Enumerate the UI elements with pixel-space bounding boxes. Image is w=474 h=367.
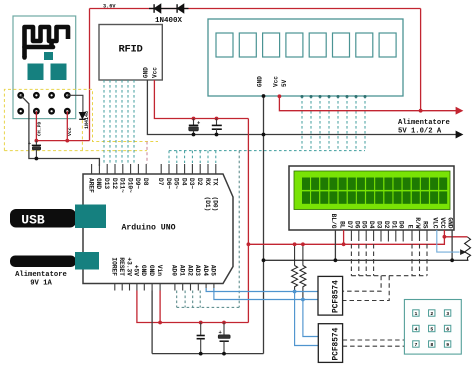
svg-text:D10~: D10~ — [126, 178, 133, 193]
svg-text:AD0: AD0 — [171, 265, 178, 276]
svg-text:Vin: Vin — [156, 265, 163, 276]
svg-text:AD1: AD1 — [179, 265, 186, 276]
capacitor C1 electrolytic — [35, 141, 37, 145]
svg-text:D7: D7 — [346, 221, 353, 229]
svg-text:RX: RX — [204, 178, 211, 186]
black dashed LCD control wires — [350, 237, 352, 276]
ESP8266 small chip — [44, 52, 53, 60]
svg-text:9: 9 — [446, 342, 449, 348]
resistor R1 pullup — [294, 244, 296, 265]
teal dashed bus horizontal — [169, 150, 365, 152]
svg-text:9V 1A: 9V 1A — [30, 280, 52, 288]
svg-text:GND: GND — [143, 67, 150, 78]
svg-text:Arduino UNO: Arduino UNO — [121, 223, 175, 233]
wire red to contrast pot — [444, 236, 467, 238]
teal dashed RFID data wires — [103, 80, 105, 163]
svg-text:8: 8 — [430, 342, 433, 348]
svg-text:Vcc: Vcc — [273, 76, 280, 87]
black dashed PCF2 to keypad B — [343, 345, 405, 347]
svg-text:USB: USB — [21, 213, 45, 228]
blue wiper arrow — [461, 250, 466, 255]
svg-text:Alimentatore: Alimentatore — [15, 271, 67, 279]
wire ESP GPIO0 to diode — [67, 95, 83, 112]
USB plug — [10, 209, 76, 228]
wire black LCD GND — [451, 230, 453, 260]
svg-text:AD2: AD2 — [186, 265, 193, 276]
RFID reader U3 body — [99, 25, 162, 81]
svg-text:+5V: +5V — [133, 265, 140, 276]
svg-text:3: 3 — [446, 311, 449, 317]
yellow dashed net ESP bottom run — [4, 150, 147, 152]
wire red BL — [343, 230, 345, 244]
Arduino UNO A1 body — [83, 174, 233, 284]
capacitor C4 — [199, 321, 203, 325]
ESP8266 header pins — [17, 92, 24, 99]
diode D1 1N400X — [154, 4, 161, 13]
LCD module body — [289, 166, 454, 230]
svg-text:D4: D4 — [180, 178, 187, 186]
wire red riser to top rail — [420, 9, 422, 111]
svg-text:RFID: RFID — [118, 44, 142, 56]
svg-text:5: 5 — [430, 327, 433, 333]
svg-text:GND: GND — [148, 265, 155, 276]
svg-text:PCF8574: PCF8574 — [333, 280, 341, 313]
svg-text:5V 1.0/2 A: 5V 1.0/2 A — [398, 128, 442, 136]
svg-text:3.6V: 3.6V — [103, 4, 116, 10]
svg-text:D8: D8 — [142, 178, 149, 186]
svg-text:AREF: AREF — [87, 178, 94, 193]
LCD green screen — [294, 171, 450, 210]
wire display GND vertical — [263, 96, 265, 354]
black dashed bus to PCF1 pin1 — [343, 276, 382, 292]
svg-text:D5~: D5~ — [173, 178, 180, 189]
svg-text:+3.3V: +3.3V — [125, 257, 132, 276]
svg-text:1N4148: 1N4148 — [84, 111, 90, 129]
svg-text:E: E — [407, 225, 414, 229]
svg-text:2: 2 — [430, 311, 433, 317]
wire red riser right — [247, 119, 249, 323]
capacitor C2 electrolytic — [192, 117, 196, 121]
power plug — [10, 256, 76, 268]
LCD character cells — [302, 178, 310, 190]
svg-text:R/W: R/W — [414, 217, 421, 228]
wire blue SCL branch to PCF2 — [295, 292, 319, 346]
keypad keys — [413, 310, 419, 316]
svg-text:BL/G: BL/G — [330, 214, 337, 229]
wire red Vin drop — [159, 291, 161, 323]
wire black ESP GND — [21, 95, 100, 166]
junction dots ESP rail — [35, 139, 39, 143]
black dashed PCF2 to keypad A — [343, 339, 405, 341]
wire black GND rail to LCD — [264, 259, 469, 261]
wire blue SDA branch to PCF2 — [303, 300, 318, 337]
svg-text:RS: RS — [422, 221, 429, 229]
wire blue SCL AD5 — [214, 288, 318, 300]
svg-text:D1: D1 — [390, 221, 397, 229]
svg-text:D12: D12 — [111, 178, 118, 189]
black dashed bus to PCF1 pin2 — [343, 276, 390, 301]
svg-text:D4: D4 — [368, 221, 375, 229]
svg-text:AD4: AD4 — [202, 265, 209, 276]
wire blue VLC wiper — [437, 230, 460, 252]
ESP8266 PCB antenna — [25, 27, 69, 57]
display DS1 digits — [216, 33, 233, 57]
svg-text:GND: GND — [95, 178, 102, 189]
resistor R2 pullup — [302, 244, 304, 265]
teal dashed display segment wires — [301, 96, 303, 151]
wire black GND drop — [151, 291, 153, 354]
Arduino top pin stubs — [91, 164, 93, 174]
svg-text:D3~: D3~ — [188, 178, 195, 189]
wire RFID Vcc red — [154, 80, 248, 119]
svg-text:D9~: D9~ — [134, 178, 141, 189]
svg-text:6: 6 — [446, 327, 449, 333]
keypad KP1 body — [404, 300, 461, 355]
wire red ESP Vcc drop — [66, 111, 68, 140]
wire black BL/G — [334, 230, 336, 260]
ESP8266 chip 2 — [51, 64, 67, 81]
svg-text:AD5: AD5 — [210, 265, 217, 276]
svg-text:VCC: VCC — [439, 217, 446, 228]
svg-text:7: 7 — [415, 342, 418, 348]
Arduino bottom pin stubs — [114, 284, 116, 291]
yellow dashed diode to net — [81, 120, 83, 150]
wire red 5V rail to LCD — [248, 230, 444, 244]
black arrow alimentatore 5V gnd — [456, 131, 463, 138]
ESP8266 module U2 body — [13, 16, 76, 119]
svg-text:D13: D13 — [103, 178, 110, 189]
USB connector on arduino — [75, 205, 106, 229]
wire 3.6V red supply top rail — [90, 8, 421, 10]
teal dashed analog bus bottom — [177, 306, 240, 308]
svg-text:CH_PD: CH_PD — [37, 121, 43, 136]
svg-text:D5: D5 — [361, 221, 368, 229]
junction dot ESP gnd — [35, 157, 39, 161]
LCD unused data stubs — [380, 237, 382, 242]
pink dashed wire to D8 — [146, 142, 148, 164]
svg-text:(D1): (D1) — [204, 197, 211, 212]
svg-text:Alimentatore: Alimentatore — [398, 119, 450, 127]
wire red ESP CH_PD drop — [35, 111, 37, 140]
svg-text:D3: D3 — [376, 221, 383, 229]
red arrow alimentatore 5V — [456, 107, 463, 114]
teal dashed vertical bus right of arduino — [238, 151, 240, 308]
yellow dashed net ESP breakout box — [4, 89, 158, 150]
svg-text:D7: D7 — [157, 178, 164, 186]
svg-text:Vcc: Vcc — [152, 67, 159, 78]
svg-text:GND: GND — [140, 265, 147, 276]
junction dot display gnd top — [262, 94, 266, 98]
PCF8574 U5 body — [318, 324, 342, 363]
svg-text:TX: TX — [212, 178, 219, 186]
diode D3 1N4148 — [79, 113, 85, 119]
svg-text:IOREF: IOREF — [111, 257, 118, 276]
display module DS1 body — [208, 19, 403, 96]
svg-text:AD3: AD3 — [194, 265, 201, 276]
svg-text:D6: D6 — [353, 221, 360, 229]
svg-text:D6~: D6~ — [165, 178, 172, 189]
junction dot display gnd rail — [262, 133, 266, 137]
svg-text:D0: D0 — [398, 221, 405, 229]
svg-text:GND: GND — [257, 76, 264, 87]
potentiometer R3 contrast — [465, 237, 471, 260]
svg-text:1: 1 — [415, 311, 418, 317]
teal dashed drops to arduino digital pins — [168, 151, 170, 163]
wire RFID GND down — [147, 80, 456, 135]
diode D2 1N400X — [177, 4, 184, 13]
svg-text:BL: BL — [339, 221, 346, 229]
svg-text:4: 4 — [415, 327, 418, 333]
svg-text:RESET: RESET — [118, 257, 125, 276]
svg-text:GND: GND — [447, 217, 454, 228]
svg-text:VLC: VLC — [431, 217, 438, 228]
PCF8574 U4 body — [318, 276, 343, 315]
LCD pin stubs — [350, 230, 352, 237]
wire blue SDA AD4 — [206, 288, 318, 292]
svg-text:5V: 5V — [281, 79, 288, 87]
svg-text:PCF8574: PCF8574 — [333, 327, 341, 360]
power connector on arduino — [75, 252, 99, 270]
svg-text:D2: D2 — [196, 178, 203, 186]
capacitor C5 electrolytic — [222, 321, 226, 325]
wire display Vcc red — [279, 96, 456, 111]
capacitor C3 — [215, 117, 219, 121]
svg-text:D11~: D11~ — [119, 178, 126, 193]
wire red ESP 3.3V rail — [36, 140, 89, 142]
wire black bottom rail — [152, 353, 263, 355]
ESP8266 chip 1 — [28, 64, 44, 81]
black dashed LCD bus — [351, 275, 427, 277]
wire red +5V drop — [137, 291, 249, 323]
svg-text:D2: D2 — [383, 221, 390, 229]
svg-text:(D0): (D0) — [212, 197, 219, 212]
svg-text:Vcc: Vcc — [67, 127, 73, 136]
